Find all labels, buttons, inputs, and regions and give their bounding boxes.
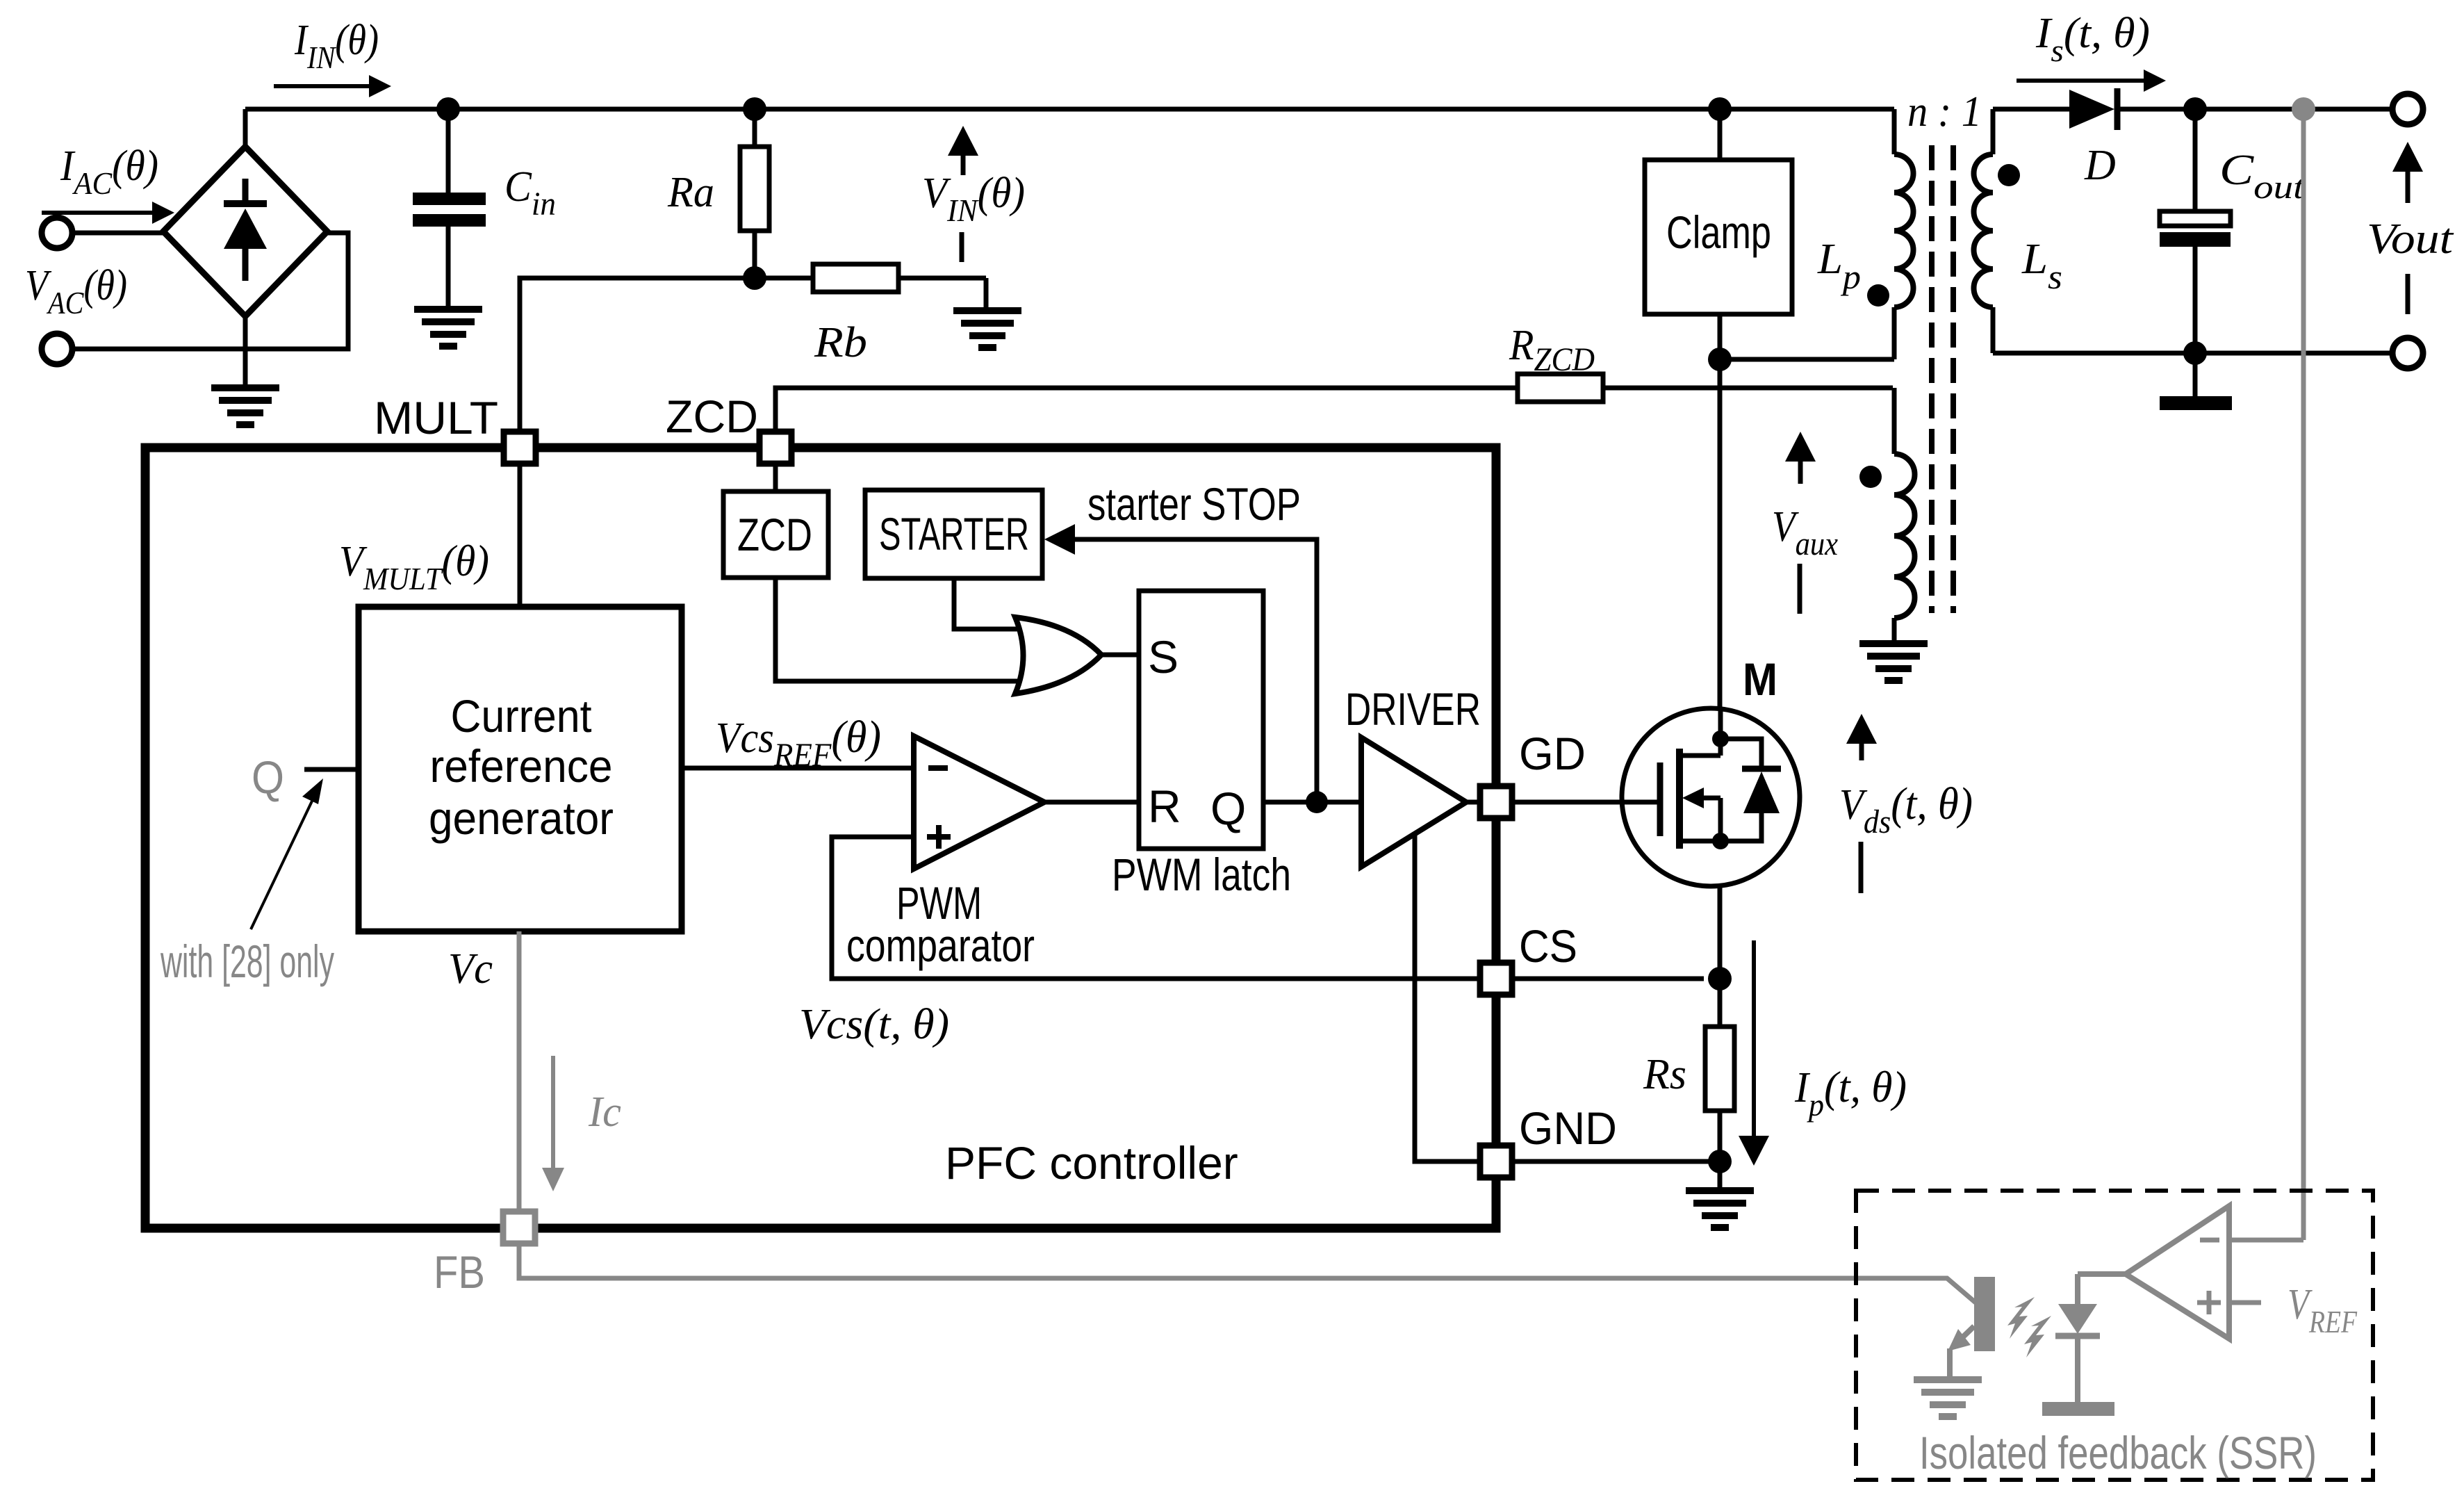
svg-text:PFC controller: PFC controller xyxy=(945,1137,1238,1189)
svg-text:Current: Current xyxy=(451,690,592,742)
block ZCD xyxy=(723,464,828,578)
wire top bus xyxy=(245,107,1894,112)
transformer core xyxy=(1932,145,1953,613)
wire clamp junction to Lp bottom xyxy=(1720,357,1894,362)
svg-text:starter STOP: starter STOP xyxy=(1087,478,1301,530)
svg-text:n : 1: n : 1 xyxy=(1907,88,1982,136)
wire Q input xyxy=(304,767,359,772)
pin GD xyxy=(1480,786,1512,818)
node junction Cout top xyxy=(2183,97,2207,121)
wire ZCD pin to RZCD xyxy=(775,388,1518,432)
pin FB (gray) xyxy=(503,1212,535,1243)
svg-text:M: M xyxy=(1743,653,1777,705)
pin ZCD xyxy=(759,432,791,464)
svg-text:Clamp: Clamp xyxy=(1666,206,1771,258)
label V_aux with arrow and dash xyxy=(1772,432,1838,614)
pin CS xyxy=(1480,963,1512,995)
resistor Rb xyxy=(755,264,986,309)
rail bar (output return) xyxy=(2160,396,2232,410)
svg-text:Rb: Rb xyxy=(814,319,867,366)
wire driver to GD pin xyxy=(1466,800,1480,805)
label V_IN(theta) with arrow and dash xyxy=(922,126,1025,262)
wire gray sense line xyxy=(2301,109,2306,1240)
node junction Ra/Rb/MULT xyxy=(743,266,766,290)
node CS junction xyxy=(1708,967,1732,990)
wire Cout bottom rail xyxy=(2193,353,2198,396)
wire comparator plus input to CS net xyxy=(832,837,1704,979)
wire ZCD to OR gate xyxy=(775,578,1024,681)
inductor Lp (primary) xyxy=(1894,109,1913,359)
svg-text:Vcs(t, θ): Vcs(t, θ) xyxy=(799,1001,949,1048)
Clamp block xyxy=(1645,109,1792,359)
ground (optocoupler, gray) xyxy=(1914,1376,1982,1420)
wire OR to S input xyxy=(1101,653,1139,658)
wire Rs to GND junction xyxy=(1718,1111,1723,1161)
node gray sense tap xyxy=(2292,97,2315,121)
capacitor Cout xyxy=(2160,109,2231,353)
terminal Vout- xyxy=(2392,338,2423,368)
label I_IN(theta) with arrow xyxy=(274,17,391,97)
svg-text:R: R xyxy=(1148,781,1181,832)
wire STARTER to OR gate xyxy=(954,578,1024,629)
wire VcsREF to comparator xyxy=(682,766,914,771)
node aux phase dot xyxy=(1859,466,1882,488)
wire driver ground return xyxy=(1415,835,1480,1161)
Isolated feedback dashed box xyxy=(1856,1191,2373,1480)
optocoupler LED xyxy=(2042,1274,2114,1416)
wire bridge to top bus xyxy=(243,109,248,147)
op-amp U1 (gray) xyxy=(2078,1206,2303,1339)
wire Vc (gray) xyxy=(517,931,522,1212)
wire FB to optocoupler (gray) xyxy=(519,1243,1976,1303)
wire source to CS junction xyxy=(1718,885,1723,1027)
ground (bridge) xyxy=(211,384,279,428)
svg-text:GND: GND xyxy=(1519,1102,1617,1154)
PFC controller box xyxy=(145,448,1496,1228)
node junction Cout bottom xyxy=(2183,341,2207,365)
driver triangle xyxy=(1361,737,1466,867)
pin GND xyxy=(1480,1145,1512,1177)
label I_AC(theta) with arrow xyxy=(42,142,174,224)
svg-text:reference: reference xyxy=(430,740,613,792)
svg-text:Vc: Vc xyxy=(448,945,493,993)
transistor M (MOSFET) xyxy=(1622,708,1800,886)
pin MULT xyxy=(504,432,536,464)
inductor Ls (secondary) xyxy=(1974,109,1994,353)
svg-text:S: S xyxy=(1148,631,1178,683)
node junction Cin tap xyxy=(436,97,460,121)
wire GND junction to ground xyxy=(1718,1161,1723,1189)
svg-text:Ic: Ic xyxy=(588,1088,621,1136)
svg-text:with [28] only: with [28] only xyxy=(160,936,334,987)
svg-text:STARTER: STARTER xyxy=(879,508,1029,560)
svg-text:Q: Q xyxy=(1210,783,1246,834)
label Ic with arrow (gray) xyxy=(542,1056,621,1191)
optocoupler phototransistor xyxy=(1948,1277,1995,1378)
resistor Rs xyxy=(1705,1027,1734,1111)
wire MULT pin to current ref generator xyxy=(518,464,523,607)
terminal Vout+ xyxy=(2392,94,2423,124)
wire drain xyxy=(1718,359,1723,710)
svg-text:ZCD: ZCD xyxy=(666,391,758,442)
node junction Ra top xyxy=(743,97,766,121)
label Vout with arrow and dash xyxy=(2367,142,2454,314)
wire Ls top to diode xyxy=(1993,107,2069,112)
block STARTER xyxy=(865,490,1042,578)
inductor aux winding xyxy=(1894,388,1915,642)
wire secondary bottom xyxy=(1993,351,2392,356)
node Lp phase dot xyxy=(1867,284,1889,307)
svg-text:MULT: MULT xyxy=(374,392,498,443)
ground (Rb / V_IN) xyxy=(953,307,1021,351)
label I_s(t, theta) with arrow xyxy=(2017,10,2166,92)
arrow with [28] only xyxy=(160,778,334,987)
wire starter STOP from Q node xyxy=(1075,539,1317,802)
svg-text:Rs: Rs xyxy=(1643,1051,1686,1098)
terminal AC top xyxy=(42,218,72,248)
wire AC bottom terminal to bridge right corner xyxy=(72,233,348,349)
svg-text:Ra: Ra xyxy=(667,169,714,216)
bridge rectifier BR1 xyxy=(163,147,327,316)
PWM latch box xyxy=(1139,591,1263,849)
photon arrows xyxy=(2007,1297,2051,1357)
wire comparator output to R xyxy=(1044,800,1139,805)
block Current reference generator xyxy=(359,607,682,931)
wire GD pin to gate xyxy=(1512,800,1660,805)
wire AC top terminal to bridge xyxy=(72,231,163,236)
svg-text:Q: Q xyxy=(252,751,284,803)
label V_ds(t, theta) with arrow and dash xyxy=(1839,714,1973,893)
svg-text:ZCD: ZCD xyxy=(737,509,812,560)
resistor RZCD xyxy=(1518,374,1893,402)
wire bridge bottom to ground xyxy=(243,316,248,386)
svg-text:Isolated feedback (SSR): Isolated feedback (SSR) xyxy=(1919,1427,2317,1478)
node junction clamp bottom xyxy=(1708,348,1732,371)
svg-text:Vout: Vout xyxy=(2367,215,2454,263)
svg-text:comparator: comparator xyxy=(846,920,1035,971)
node GND junction xyxy=(1708,1150,1732,1173)
ground (Cin) xyxy=(414,306,482,350)
label I_p(t, theta) with arrow xyxy=(1739,940,1907,1166)
svg-text:FB: FB xyxy=(434,1246,485,1298)
wire GND pin to junction xyxy=(1512,1159,1720,1164)
svg-text:PWM latch: PWM latch xyxy=(1112,849,1291,900)
wire MULT net from divider junction xyxy=(520,278,755,432)
svg-text:D: D xyxy=(2084,142,2116,189)
node Ls phase dot xyxy=(1998,164,2020,186)
svg-text:GD: GD xyxy=(1519,728,1586,779)
resistor Ra xyxy=(740,109,769,278)
terminal AC bottom xyxy=(42,334,72,364)
OR gate xyxy=(1015,617,1101,694)
diode D xyxy=(2069,88,2392,130)
svg-text:DRIVER: DRIVER xyxy=(1345,683,1481,735)
wire Q output to driver xyxy=(1263,800,1361,805)
node junction top bus / clamp xyxy=(1708,97,1732,121)
ground (power) xyxy=(1686,1187,1754,1231)
svg-text:CS: CS xyxy=(1519,920,1577,972)
PWM comparator xyxy=(914,736,1044,869)
capacitor Cin xyxy=(413,109,486,307)
svg-text:generator: generator xyxy=(429,792,614,844)
node Q output junction xyxy=(1306,791,1328,813)
ground (aux winding) xyxy=(1859,640,1928,684)
